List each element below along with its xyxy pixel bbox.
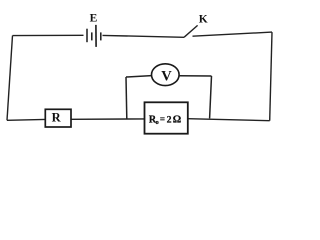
svg-text:2: 2 — [167, 115, 172, 126]
wire bottom left — [7, 118, 45, 121]
svg-text:=: = — [160, 114, 165, 124]
wire top-left horizontal — [13, 34, 84, 36]
svg-text:V: V — [161, 68, 172, 84]
wire battery to switch — [103, 35, 185, 37]
wire bottom right — [188, 119, 270, 121]
wire switch to top-right corner — [193, 32, 273, 36]
voltmeter branch left vertical wire — [125, 77, 128, 119]
svg-text:K: K — [199, 13, 208, 25]
resistor R — [45, 109, 71, 127]
svg-text:o: o — [156, 119, 159, 126]
svg-text:E: E — [90, 12, 98, 24]
svg-text:R: R — [52, 111, 62, 125]
battery E — [87, 25, 101, 47]
svg-text:Ω: Ω — [173, 115, 181, 126]
voltmeter branch right horizontal wire — [179, 75, 211, 77]
resistor R0 — [145, 102, 188, 133]
wire right vertical — [270, 32, 272, 121]
wire bottom middle — [71, 118, 145, 120]
voltmeter branch right vertical wire — [210, 76, 212, 118]
switch K lever — [184, 25, 198, 37]
wire left vertical — [7, 36, 13, 121]
voltmeter U1 (V) — [152, 64, 180, 86]
voltmeter branch left horizontal wire — [126, 76, 152, 77]
value label R0 = 2 ohm — [149, 114, 181, 126]
